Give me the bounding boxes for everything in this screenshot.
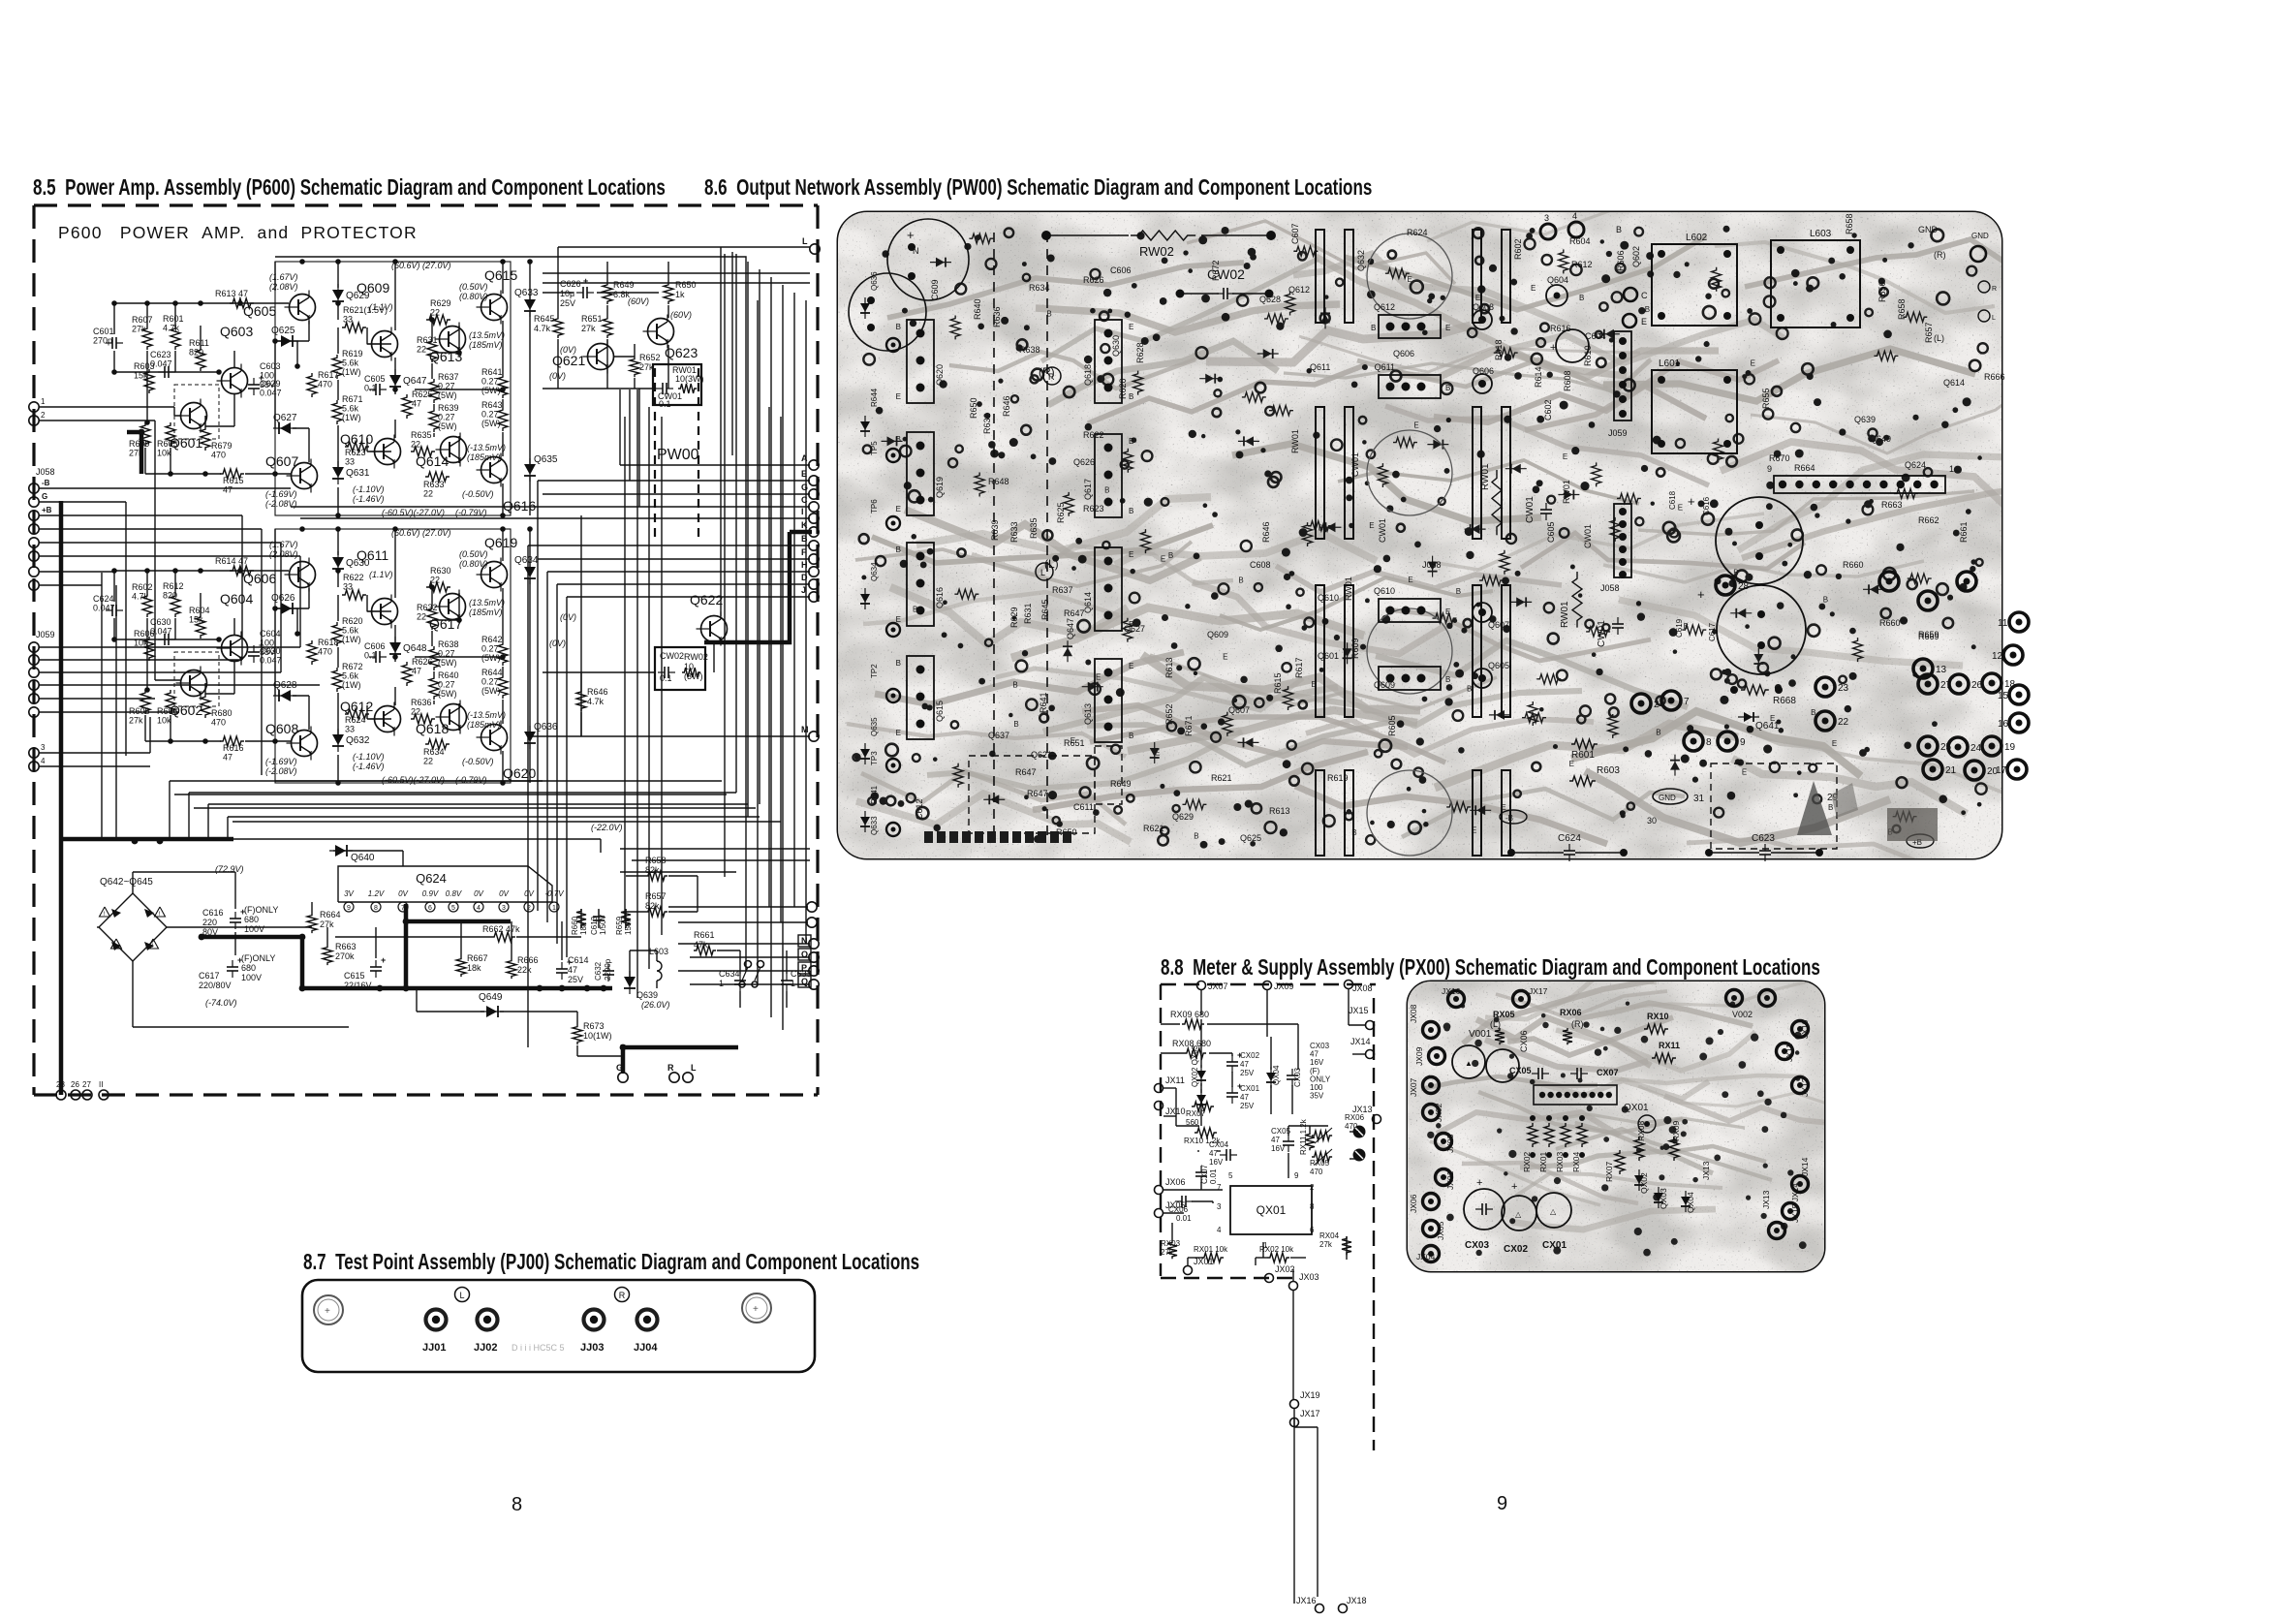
svg-text:R680: R680 xyxy=(211,708,233,718)
svg-text:Q634: Q634 xyxy=(870,562,879,581)
PW00 +B label xyxy=(1907,834,1934,848)
svg-text:2: 2 xyxy=(1654,700,1660,710)
svg-text:Q613: Q613 xyxy=(1083,703,1093,725)
svg-text:47: 47 xyxy=(223,753,233,763)
svg-text:10: 10 xyxy=(684,662,694,671)
svg-text:R649: R649 xyxy=(613,280,635,290)
svg-text:R618: R618 xyxy=(1494,339,1504,360)
svg-text:R644: R644 xyxy=(870,388,879,407)
PX00 connector JX01 xyxy=(1184,1266,1193,1275)
svg-text:(1W): (1W) xyxy=(342,680,361,690)
capacitor C605|0.1 xyxy=(369,389,376,390)
resistor R661 xyxy=(694,946,716,955)
svg-text:0.1: 0.1 xyxy=(364,651,377,661)
svg-text:R673: R673 xyxy=(583,1021,605,1031)
svg-text:0.01: 0.01 xyxy=(1209,1168,1218,1184)
svg-text:B: B xyxy=(1129,392,1133,401)
svg-text:QX01: QX01 xyxy=(1257,1203,1287,1217)
svg-text:(0.80V): (0.80V) xyxy=(459,559,488,569)
resistor R622|33 xyxy=(342,590,366,600)
svg-text:L: L xyxy=(802,236,808,246)
svg-text:(185mV): (185mV) xyxy=(469,607,503,617)
svg-text:15k: 15k xyxy=(189,615,203,625)
svg-text:5: 5 xyxy=(451,905,455,912)
svg-text:R604: R604 xyxy=(189,606,210,615)
amplifier stage box channel 1 xyxy=(275,262,511,515)
svg-text:1.2V: 1.2V xyxy=(368,889,385,898)
svg-text:B: B xyxy=(1645,305,1650,314)
svg-text:(5W): (5W) xyxy=(438,421,457,431)
svg-text:(1.67V): (1.67V) xyxy=(269,272,298,282)
PJ00 board outline xyxy=(302,1280,815,1372)
svg-text:E: E xyxy=(1161,555,1165,564)
svg-text:E: E xyxy=(1445,324,1450,332)
resistor R636|22 xyxy=(411,714,435,724)
svg-text:(-13.5mV): (-13.5mV) xyxy=(467,710,506,720)
svg-text:(5W): (5W) xyxy=(481,419,501,428)
resistor R664 xyxy=(307,913,317,933)
svg-text:CW01: CW01 xyxy=(1583,524,1593,548)
svg-text:JX11: JX11 xyxy=(1165,1075,1185,1085)
svg-text:C604: C604 xyxy=(260,629,281,639)
svg-text:R664: R664 xyxy=(320,910,341,919)
svg-text:R633: R633 xyxy=(1009,521,1019,543)
svg-text:1k: 1k xyxy=(675,290,685,299)
svg-text:CX04: CX04 xyxy=(1209,1140,1229,1149)
svg-text:11: 11 xyxy=(1998,618,2008,629)
svg-text:JJ04: JJ04 xyxy=(634,1342,658,1354)
PW00 pads 3 4 B C E xyxy=(1540,224,1556,239)
IC Q624 pin 4 xyxy=(474,902,483,912)
svg-text:30: 30 xyxy=(1647,816,1657,826)
svg-text:C606: C606 xyxy=(1110,265,1132,275)
svg-text:(13.5mV): (13.5mV) xyxy=(469,330,505,340)
svg-text:8: 8 xyxy=(1310,1202,1315,1211)
test point G xyxy=(618,1073,628,1082)
resistor R611|820 xyxy=(196,347,205,371)
transistor Q619 xyxy=(481,562,508,588)
PW00 driver connector Q619 xyxy=(907,432,934,515)
PW00 driver connector Q618 xyxy=(1095,320,1122,403)
svg-text:C623: C623 xyxy=(1752,833,1775,844)
svg-text:680: 680 xyxy=(244,915,259,924)
svg-text:2: 2 xyxy=(1310,1183,1315,1192)
svg-text:33: 33 xyxy=(343,582,353,592)
svg-text:JX19: JX19 xyxy=(1300,1390,1320,1400)
svg-text:R: R xyxy=(1048,372,1055,382)
transistor Q609 xyxy=(372,331,398,358)
svg-text:47: 47 xyxy=(412,399,421,409)
svg-text:JX07: JX07 xyxy=(1409,1077,1418,1097)
svg-text:R645: R645 xyxy=(1040,599,1050,620)
svg-text:R602: R602 xyxy=(1513,238,1523,260)
svg-text:22: 22 xyxy=(423,489,433,499)
svg-text:10μ: 10μ xyxy=(560,289,574,298)
svg-text:+: + xyxy=(325,1306,330,1317)
svg-text:13: 13 xyxy=(1936,665,1947,675)
svg-text:22: 22 xyxy=(430,576,440,585)
svg-text:B: B xyxy=(1684,622,1689,631)
svg-text:0V: 0V xyxy=(474,889,483,898)
svg-text:Q632: Q632 xyxy=(1356,250,1366,271)
svg-text:R632: R632 xyxy=(982,413,992,434)
PX00 resistor RX03 xyxy=(1167,1240,1177,1259)
PW00 pad Q605 xyxy=(1473,669,1492,688)
svg-text:C629: C629 xyxy=(260,379,281,389)
svg-text:C615: C615 xyxy=(344,971,365,981)
svg-text:Q624: Q624 xyxy=(1905,460,1926,470)
svg-text:R612: R612 xyxy=(1571,260,1593,269)
svg-text:C624: C624 xyxy=(1558,833,1581,844)
transistor Q617 xyxy=(440,594,466,620)
wire mesh xyxy=(114,570,289,572)
svg-text:C617: C617 xyxy=(199,971,220,981)
svg-text:15: 15 xyxy=(1998,691,2009,701)
svg-text:26: 26 xyxy=(71,1080,79,1089)
capacitor C606|0.1 xyxy=(369,656,376,658)
resistor R679|470 xyxy=(201,426,210,451)
wire right harness horizontals xyxy=(620,464,810,466)
svg-text:9: 9 xyxy=(1767,464,1772,474)
transistor Q608 xyxy=(292,731,318,757)
svg-text:10k: 10k xyxy=(157,449,171,458)
svg-text:RX06: RX06 xyxy=(1345,1113,1365,1122)
svg-text:17: 17 xyxy=(1996,765,2007,776)
resistor R606|10k xyxy=(166,690,175,714)
svg-text:R621: R621 xyxy=(1211,773,1232,783)
svg-text:Q614: Q614 xyxy=(416,453,449,469)
transistor Q620 xyxy=(481,725,508,751)
resistor R612|820 xyxy=(171,593,180,617)
svg-text:220: 220 xyxy=(202,918,217,927)
svg-text:R611: R611 xyxy=(189,338,209,348)
svg-text:Q619: Q619 xyxy=(484,535,517,550)
svg-text:27k: 27k xyxy=(129,716,143,726)
svg-text:820: 820 xyxy=(189,348,203,358)
svg-text:Q623: Q623 xyxy=(665,345,698,360)
wire harness left verticals xyxy=(169,781,171,839)
PW00 terminal pads xyxy=(1815,677,1835,697)
transistor Q621 xyxy=(588,344,614,370)
svg-text:E: E xyxy=(896,392,901,401)
svg-text:R601: R601 xyxy=(1571,750,1595,761)
svg-text:-B: -B xyxy=(42,479,50,487)
svg-text:Q631: Q631 xyxy=(346,468,370,479)
svg-text:Q615: Q615 xyxy=(484,267,517,283)
svg-text:Q637: Q637 xyxy=(988,731,1009,740)
svg-text:B: B xyxy=(1238,576,1243,584)
svg-text:R606: R606 xyxy=(134,629,155,639)
svg-text:R669: R669 xyxy=(1918,632,1939,641)
svg-text:B: B xyxy=(1129,507,1133,515)
svg-text:R639: R639 xyxy=(990,519,1000,541)
svg-text:Q632: Q632 xyxy=(346,735,370,746)
resistor R620|5.6k|(1W) xyxy=(332,622,342,646)
svg-text:L: L xyxy=(1040,568,1045,577)
connector P xyxy=(798,962,811,974)
PW00 resistor R668 xyxy=(1741,685,1769,695)
transistor Q606 xyxy=(290,562,316,588)
svg-text:0.27: 0.27 xyxy=(481,677,499,687)
svg-text:Q634: Q634 xyxy=(514,555,539,566)
svg-text:47: 47 xyxy=(1240,1060,1249,1069)
svg-text:TP6: TP6 xyxy=(870,499,879,514)
svg-text:R613: R613 xyxy=(1269,806,1290,816)
resistor R634|22 xyxy=(425,739,450,749)
svg-text:JX08: JX08 xyxy=(1352,983,1373,993)
svg-text:B: B xyxy=(1828,803,1833,812)
capacitor C626 xyxy=(576,292,583,294)
svg-text:R651: R651 xyxy=(1064,738,1085,748)
transistor Q611 xyxy=(372,599,398,625)
connector pin 4 xyxy=(29,762,39,771)
svg-text:JX13: JX13 xyxy=(1761,1190,1771,1209)
svg-text:E: E xyxy=(1751,358,1755,367)
svg-text:R616: R616 xyxy=(1550,324,1571,333)
svg-text:Q629: Q629 xyxy=(1172,812,1194,822)
svg-text:JX08: JX08 xyxy=(1409,1004,1418,1023)
svg-text:E: E xyxy=(896,729,901,737)
svg-text:100V: 100V xyxy=(244,924,264,934)
resistor R625|47 xyxy=(402,394,412,419)
PW00 connector Q609 xyxy=(1379,667,1441,690)
svg-text:25V: 25V xyxy=(568,975,583,984)
svg-text:R620: R620 xyxy=(1118,378,1128,399)
svg-text:+: + xyxy=(381,955,386,965)
PW00 mounting circles xyxy=(887,219,969,300)
svg-text:CX07: CX07 xyxy=(1597,1068,1619,1077)
PX00 connector JX16 xyxy=(1316,1604,1324,1613)
svg-text:R633: R633 xyxy=(423,480,445,489)
PW00 TP pads xyxy=(886,338,900,352)
svg-text:(5W): (5W) xyxy=(481,653,501,663)
svg-text:JX12: JX12 xyxy=(1800,1077,1810,1097)
svg-text:Q610: Q610 xyxy=(1374,586,1395,596)
svg-text:1: 1 xyxy=(791,979,795,988)
svg-text:24: 24 xyxy=(1970,743,1982,754)
svg-text:E: E xyxy=(1155,749,1160,758)
svg-text:II: II xyxy=(99,1080,103,1089)
svg-text:RX10: RX10 xyxy=(1647,1012,1669,1021)
svg-text:(-1.69V): (-1.69V) xyxy=(265,489,297,499)
svg-text:R638: R638 xyxy=(438,639,459,649)
svg-text:R661: R661 xyxy=(1959,521,1969,543)
svg-text:Q601: Q601 xyxy=(1318,651,1339,661)
PX00 connector JX18 xyxy=(1339,1604,1348,1613)
svg-text:3: 3 xyxy=(1217,1202,1222,1211)
svg-text:R646: R646 xyxy=(587,687,608,697)
svg-text:E: E xyxy=(1445,607,1450,616)
PX00 zener QX02 QX03 xyxy=(1200,1065,1202,1086)
svg-text:27k: 27k xyxy=(1319,1240,1333,1249)
svg-text:Q607: Q607 xyxy=(265,453,298,469)
dashed outline around Q602 xyxy=(174,652,219,706)
svg-text:27k: 27k xyxy=(581,324,596,333)
svg-text:(5W): (5W) xyxy=(438,689,457,699)
svg-text:R609: R609 xyxy=(1350,638,1360,659)
svg-text:B: B xyxy=(1445,384,1450,392)
svg-text:22: 22 xyxy=(423,757,433,766)
svg-text:R666: R666 xyxy=(1984,372,2005,382)
IC Q624 pin 5 xyxy=(449,902,458,912)
svg-text:680: 680 xyxy=(241,963,256,973)
PW00 RW02 resistor xyxy=(1046,234,1129,236)
PX00 diode QX04 xyxy=(1270,1067,1272,1088)
svg-text:TP5: TP5 xyxy=(870,441,879,455)
svg-text:RW01: RW01 xyxy=(1480,463,1491,490)
svg-text:R619: R619 xyxy=(342,349,363,358)
svg-text:Q626: Q626 xyxy=(271,593,295,604)
svg-text:(-1.10V): (-1.10V) xyxy=(353,484,385,494)
svg-text:JX06: JX06 xyxy=(1409,1194,1418,1213)
resistor R632|22 xyxy=(427,606,437,630)
svg-text:R603: R603 xyxy=(1597,765,1620,776)
svg-text:0.047: 0.047 xyxy=(260,389,282,398)
PW00 IC Q624 strip xyxy=(1774,476,1945,493)
svg-text:JX06: JX06 xyxy=(1165,1177,1186,1187)
svg-text:1: 1 xyxy=(41,397,46,406)
svg-text:R613: R613 xyxy=(1164,657,1174,678)
PX00 PCB capacitors xyxy=(1464,1189,1505,1230)
PW00 driver connector Q616 xyxy=(907,543,934,626)
PX00 potentiometer RX05 xyxy=(1312,1152,1332,1162)
svg-text:R608: R608 xyxy=(129,706,150,716)
svg-text:Q606: Q606 xyxy=(1393,349,1414,358)
svg-text:R659: R659 xyxy=(615,916,624,935)
svg-text:8.7 Test Point Assembly (PJ00: 8.7 Test Point Assembly (PJ00) Schematic… xyxy=(303,1251,919,1275)
svg-text:18k: 18k xyxy=(467,963,481,973)
svg-text:R626: R626 xyxy=(412,657,433,667)
transistor Q605 xyxy=(290,295,316,321)
resistor R643|0.27|(5W) xyxy=(498,407,508,431)
svg-text:Q625: Q625 xyxy=(1240,833,1261,843)
svg-text:47: 47 xyxy=(223,485,233,495)
svg-text:R: R xyxy=(667,1063,674,1073)
svg-text:R614 47: R614 47 xyxy=(215,556,248,566)
svg-text:B: B xyxy=(1168,551,1173,560)
svg-text:Q629: Q629 xyxy=(346,291,370,301)
svg-text:B: B xyxy=(1129,732,1133,740)
svg-text:B: B xyxy=(1579,294,1584,302)
svg-text:22: 22 xyxy=(430,308,440,318)
svg-text:TP3: TP3 xyxy=(870,751,879,765)
svg-text:R605: R605 xyxy=(157,439,178,449)
PX00 capacitor CX03 xyxy=(1291,1069,1293,1075)
svg-text:2200p: 2200p xyxy=(604,958,612,981)
PX00 resistor RX10 xyxy=(1195,1128,1217,1137)
svg-text:R667: R667 xyxy=(467,953,488,963)
svg-text:C616: C616 xyxy=(202,908,224,918)
svg-text:JX16: JX16 xyxy=(1442,986,1461,996)
wire bottom area xyxy=(60,838,62,840)
svg-text:C619: C619 xyxy=(1675,618,1684,638)
svg-text:R660: R660 xyxy=(1879,618,1901,628)
svg-text:(13.5mV): (13.5mV) xyxy=(469,598,505,607)
svg-text:Q626: Q626 xyxy=(1073,457,1095,467)
svg-text:0V: 0V xyxy=(499,889,509,898)
IC Q624 pin 2 xyxy=(524,902,534,912)
svg-text:10(1W): 10(1W) xyxy=(583,1031,612,1041)
resistor R615|47 xyxy=(220,469,244,479)
resistor R616|47 xyxy=(220,736,244,746)
svg-text:Q625: Q625 xyxy=(271,326,295,336)
svg-text:R624: R624 xyxy=(1407,228,1428,237)
svg-text:R626: R626 xyxy=(1083,275,1104,285)
svg-text:(185mV): (185mV) xyxy=(467,720,501,730)
svg-text:(185mV): (185mV) xyxy=(467,452,501,462)
resistor R642|0.27|(5W) xyxy=(498,641,508,666)
diode Q633 xyxy=(529,294,531,317)
svg-text:0.27: 0.27 xyxy=(438,680,455,690)
PW00 solder pads xyxy=(853,226,1987,849)
svg-text:JX03: JX03 xyxy=(1445,1134,1455,1153)
svg-text:(5W): (5W) xyxy=(438,390,457,400)
capacitor C617 xyxy=(232,960,233,967)
svg-text:33: 33 xyxy=(343,315,353,325)
capacitor C632 xyxy=(607,964,609,971)
svg-text:8: 8 xyxy=(374,905,378,912)
svg-text:V001: V001 xyxy=(1469,1029,1492,1040)
svg-text:16V: 16V xyxy=(1271,1144,1286,1153)
svg-text:RX05: RX05 xyxy=(1310,1159,1330,1168)
svg-text:JX17: JX17 xyxy=(1300,1409,1320,1418)
svg-text:(F)ONLY: (F)ONLY xyxy=(241,953,275,963)
svg-text:RX11 1.2k: RX11 1.2k xyxy=(1299,1118,1308,1155)
svg-text:C624: C624 xyxy=(93,594,114,604)
wire xyxy=(543,292,574,294)
svg-text:E: E xyxy=(1129,323,1133,331)
svg-text:R658: R658 xyxy=(1897,298,1907,320)
svg-text:3V: 3V xyxy=(344,889,354,898)
svg-text:C613: C613 xyxy=(590,916,599,935)
svg-text:Q607: Q607 xyxy=(1228,705,1250,715)
svg-text:GND: GND xyxy=(1971,232,1989,240)
connector N xyxy=(798,935,811,947)
svg-text:27k: 27k xyxy=(132,325,146,334)
svg-text:G: G xyxy=(801,483,808,492)
svg-text:R641: R641 xyxy=(481,367,503,377)
svg-text:0.1: 0.1 xyxy=(364,384,377,393)
resistor R638|0.27|(5W) xyxy=(429,646,439,670)
svg-text:Q640: Q640 xyxy=(351,853,375,863)
output network RW01 CW01 xyxy=(653,364,701,405)
PX00 capacitor CX07 xyxy=(1200,1166,1202,1172)
resistor R605|10k xyxy=(166,422,175,447)
wire harness verticals right xyxy=(624,417,626,920)
diode Q639 xyxy=(629,971,631,994)
svg-text:J058: J058 xyxy=(1422,560,1442,570)
svg-text:R620: R620 xyxy=(342,616,363,626)
svg-text:CW01: CW01 xyxy=(1350,452,1360,477)
svg-text:Q616: Q616 xyxy=(503,498,536,514)
capacitor C616 xyxy=(234,912,236,919)
wire left connector harness xyxy=(39,487,291,489)
capacitor C604|100|35V xyxy=(253,645,255,652)
svg-text:4.7k: 4.7k xyxy=(587,697,605,706)
svg-text:C608: C608 xyxy=(1250,560,1271,570)
svg-text:470: 470 xyxy=(318,380,332,389)
svg-text:R656: R656 xyxy=(1877,281,1887,302)
svg-text:Q624: Q624 xyxy=(416,871,447,886)
resistor R606|10k xyxy=(144,637,154,661)
svg-text:31: 31 xyxy=(1693,794,1705,804)
PJ00 jack JJ04 xyxy=(637,1310,658,1330)
svg-text:(60V): (60V) xyxy=(628,296,649,306)
svg-text:4.7k: 4.7k xyxy=(163,324,180,333)
PX00 PCB IC QX01 xyxy=(1534,1085,1617,1105)
resistor R667 xyxy=(456,956,466,977)
svg-text:RX01 10k: RX01 10k xyxy=(1194,1245,1228,1254)
